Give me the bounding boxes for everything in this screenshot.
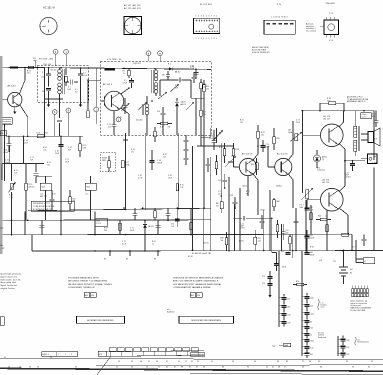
wire x61 drop2 bbox=[60, 220, 62, 234]
svg-text:R 31: R 31 bbox=[131, 149, 135, 151]
wire x95 drop bbox=[94, 212, 96, 235]
boxed net label 3x8C bbox=[276, 185, 282, 187]
wire x23 down bbox=[23, 136, 25, 163]
resistor R39 bbox=[221, 232, 228, 250]
svg-text:(C57): (C57) bbox=[239, 241, 244, 243]
trimmer module B1 bbox=[158, 92, 167, 99]
wire below box7213 bbox=[46, 211, 91, 221]
variable resistor volume bbox=[225, 156, 236, 167]
svg-text:180: 180 bbox=[287, 306, 290, 308]
svg-text:88: 88 bbox=[181, 366, 183, 368]
svg-text:120uF: 120uF bbox=[157, 163, 162, 165]
connector right battery bbox=[356, 258, 375, 264]
wire x143 vertical bbox=[145, 133, 147, 210]
boxed label 3x42 bbox=[203, 243, 209, 245]
svg-text:56: 56 bbox=[146, 366, 148, 368]
wire bus y136 bbox=[6, 136, 83, 138]
svg-text:98: 98 bbox=[309, 361, 311, 363]
wire x296 drop bbox=[295, 208, 297, 251]
capacitor C42 center bbox=[150, 150, 162, 170]
svg-text:47k: 47k bbox=[327, 100, 330, 102]
junction dots bus220 bbox=[11, 220, 169, 222]
boxed MW FM english bbox=[84, 293, 96, 297]
svg-text:R 70: R 70 bbox=[180, 185, 184, 187]
svg-text:4: 4 bbox=[203, 38, 204, 40]
wire module A drop x66 bbox=[65, 68, 68, 86]
svg-text:10uF: 10uF bbox=[310, 210, 314, 212]
svg-text:1: 1 bbox=[216, 38, 217, 40]
svg-text:R 37: R 37 bbox=[246, 191, 250, 193]
svg-text:LES VALEURS SONT VALABLES: LES VALEURS SONT VALABLES SANS SIGNAL bbox=[173, 283, 222, 286]
capacitor C13 below T2 bbox=[107, 111, 116, 132]
svg-text:R 23: R 23 bbox=[47, 162, 51, 164]
svg-text:41: 41 bbox=[166, 361, 168, 363]
wire bus y163 bbox=[0, 163, 44, 165]
label AC117 pinout bbox=[124, 4, 141, 10]
svg-text:C14: C14 bbox=[218, 180, 221, 182]
wire x177 vertical bbox=[177, 133, 179, 209]
IF/osc module F IV 7306-50 label bbox=[107, 59, 122, 61]
svg-text:96: 96 bbox=[302, 366, 304, 368]
svg-text:MODIFICATIONS RESERVEES: MODIFICATIONS RESERVEES bbox=[191, 319, 221, 322]
svg-text:AF 126 I: AF 126 I bbox=[8, 85, 17, 88]
junction E26 box bbox=[95, 218, 107, 227]
capacitor C44 series bbox=[234, 216, 273, 230]
svg-text:330: 330 bbox=[104, 230, 107, 232]
boxed label 3x7C bbox=[282, 267, 287, 269]
wire T3 collector bbox=[253, 140, 259, 160]
svg-text:39k: 39k bbox=[246, 193, 249, 195]
choke on bus left bbox=[10, 66, 18, 68]
electrolytic column D bbox=[303, 336, 315, 358]
svg-text:50uF: 50uF bbox=[266, 147, 270, 149]
trimmer arrow module B1 bbox=[170, 84, 179, 92]
thin rule 1 bbox=[0, 358, 383, 361]
svg-text:C60: C60 bbox=[310, 252, 313, 254]
wire T6 collector bbox=[339, 161, 345, 192]
svg-text:R 63: R 63 bbox=[104, 228, 108, 230]
boxed net label 3x1 bbox=[243, 185, 248, 187]
labels near battery bbox=[310, 247, 355, 264]
svg-text:4n5: 4n5 bbox=[310, 305, 313, 307]
svg-text:C 42: C 42 bbox=[157, 160, 161, 162]
resistor x311b bbox=[310, 213, 313, 220]
svg-text:44: 44 bbox=[266, 366, 268, 368]
svg-text:6: 6 bbox=[208, 15, 209, 17]
resistor R11 module B bbox=[157, 122, 172, 128]
wire module A x44 stub bbox=[44, 68, 46, 99]
electrolytic column B bbox=[303, 293, 315, 326]
svg-text:R 05: R 05 bbox=[37, 133, 41, 135]
svg-text:C 4: C 4 bbox=[83, 73, 86, 75]
svg-text:1: 1 bbox=[65, 354, 66, 356]
wire output left rail bbox=[302, 110, 304, 193]
svg-text:(1): (1) bbox=[322, 159, 325, 161]
svg-text:52: 52 bbox=[310, 334, 312, 336]
capacitor C15 with trimmer bbox=[118, 98, 130, 119]
svg-text:4: 4 bbox=[203, 15, 204, 17]
svg-text:45: 45 bbox=[272, 366, 274, 368]
speaker LS bbox=[368, 128, 380, 146]
circled 8 below A bbox=[66, 108, 71, 136]
IF transformer module FII 7213-380 label bbox=[39, 58, 54, 60]
svg-text:ALTERATIONS RESERVED: ALTERATIONS RESERVED bbox=[87, 319, 114, 322]
diode AD thermistor bbox=[313, 150, 327, 168]
svg-text:C 5: C 5 bbox=[124, 80, 127, 82]
svg-text:2: 2 bbox=[198, 38, 199, 40]
svg-text:CONDENSER TURNED IN: CONDENSER TURNED IN bbox=[68, 287, 95, 289]
capacitor C3 in module A bbox=[78, 68, 87, 83]
boxed label 3x0C bbox=[261, 210, 266, 212]
wire module B bottoms bbox=[114, 69, 204, 135]
svg-text:4.7uF: 4.7uF bbox=[123, 83, 127, 85]
module box trafo right bbox=[85, 183, 96, 190]
junction dots bus208 bbox=[123, 207, 236, 209]
svg-text:C91: C91 bbox=[346, 347, 349, 349]
small box left edge bbox=[0, 317, 4, 326]
svg-text:R 28: R 28 bbox=[236, 149, 240, 151]
svg-text:2: 2 bbox=[71, 354, 72, 356]
wire x320 vertical bbox=[319, 103, 321, 111]
svg-text:R 19: R 19 bbox=[83, 145, 87, 147]
text block english bbox=[68, 277, 112, 290]
left margin box2 bbox=[1, 131, 7, 136]
svg-text:R68: R68 bbox=[277, 201, 280, 203]
trimmer arrow center bbox=[214, 130, 223, 140]
svg-text:3: 3 bbox=[201, 15, 202, 17]
component on stub x158 bbox=[156, 226, 161, 228]
svg-text:C 17: C 17 bbox=[30, 157, 34, 159]
svg-text:75k: 75k bbox=[168, 127, 171, 129]
svg-text:F IV 7306 - 50: F IV 7306 - 50 bbox=[107, 59, 122, 61]
svg-text:50: 50 bbox=[232, 361, 234, 363]
svg-text:C 64: C 64 bbox=[191, 66, 195, 68]
stub rail x110 bbox=[109, 250, 111, 256]
note adjusted text bbox=[347, 96, 368, 104]
svg-text:GROUNDED on PCC: GROUNDED on PCC bbox=[33, 203, 51, 205]
capacitor column below rail bbox=[262, 271, 272, 290]
connector block F IV bbox=[264, 17, 295, 35]
svg-text:6k8: 6k8 bbox=[73, 201, 76, 203]
label F IV bbox=[277, 4, 282, 6]
svg-text:FI, FII, FIII,: FI, FII, FIII, bbox=[200, 4, 213, 6]
svg-text:67: 67 bbox=[196, 366, 198, 368]
wire x270 below bbox=[268, 290, 271, 298]
resistor R16 module B bbox=[203, 80, 210, 98]
wire output top rail bbox=[301, 110, 374, 112]
thin rule 2 right bbox=[96, 364, 383, 367]
svg-text:E1: M: E1: M bbox=[188, 256, 193, 258]
svg-text:C 40: C 40 bbox=[55, 151, 59, 153]
svg-text:R10: R10 bbox=[251, 164, 254, 166]
label below rail left bbox=[104, 259, 156, 261]
tiny label field 1 bbox=[44, 196, 47, 198]
wire battery top bbox=[343, 250, 345, 259]
svg-text:16.05%: 16.05% bbox=[345, 177, 351, 179]
wire T6 emitter bbox=[339, 208, 348, 235]
svg-text:46: 46 bbox=[140, 361, 142, 363]
wire x263 drop bbox=[263, 210, 265, 250]
transistor T6 AC117 lower bbox=[321, 179, 344, 212]
small dashed box label bbox=[101, 153, 116, 172]
capacitor C4 vertical plates bbox=[66, 80, 79, 91]
svg-text:R 2: R 2 bbox=[168, 64, 171, 66]
svg-text:R 13: R 13 bbox=[9, 195, 13, 197]
svg-text:E3: E3 bbox=[126, 259, 128, 261]
svg-text:R 06: R 06 bbox=[43, 147, 47, 149]
svg-text:R 15: R 15 bbox=[29, 184, 33, 186]
wire T5 emitter bbox=[339, 143, 345, 160]
wire bus y211 bbox=[28, 210, 100, 211]
svg-text:Typ: Typ bbox=[272, 346, 275, 348]
svg-text:C 21: C 21 bbox=[65, 159, 69, 161]
resistor x155 below bus bbox=[154, 208, 157, 220]
svg-text:AC 117 / AC 176: AC 117 / AC 176 bbox=[124, 4, 141, 7]
svg-text:(3x8C): (3x8C) bbox=[276, 185, 282, 187]
svg-text:250u: 250u bbox=[310, 297, 314, 299]
svg-text:C92: C92 bbox=[346, 354, 349, 356]
wire T3 emitter bbox=[253, 174, 258, 200]
transistor T5 AC117 upper bbox=[321, 115, 344, 147]
trimmer arrow module B2 bbox=[138, 102, 147, 110]
resistor R68 bbox=[273, 198, 280, 211]
svg-text:C14: C14 bbox=[157, 111, 160, 113]
svg-text:C 10: C 10 bbox=[345, 173, 349, 175]
svg-text:S 2: S 2 bbox=[352, 247, 355, 249]
wire module A drop x44 bbox=[44, 99, 46, 137]
wire T5-T6 join bbox=[344, 160, 346, 162]
svg-text:FTP: FTP bbox=[99, 354, 102, 356]
wire T4 base bbox=[268, 146, 275, 167]
wire T2 emitter bbox=[121, 108, 129, 131]
svg-text:NTC: NTC bbox=[317, 168, 320, 170]
svg-text:AC 151 VII: AC 151 VII bbox=[277, 153, 288, 156]
svg-text:R 42: R 42 bbox=[261, 132, 265, 134]
label 41 above rule bbox=[4, 357, 52, 359]
svg-text:68: 68 bbox=[203, 366, 205, 368]
resistor x216 mid bbox=[215, 155, 218, 175]
box modifications reservees bbox=[179, 316, 234, 323]
svg-text:8nF: 8nF bbox=[68, 149, 71, 151]
svg-text:Chass: Chass bbox=[362, 114, 367, 116]
resistor R40 fuse bbox=[324, 98, 340, 104]
note text bottom view bbox=[252, 46, 270, 54]
svg-text:TENSIONS DE SERVICE MESUREE: TENSIONS DE SERVICE MESUREES A CHASSIS bbox=[173, 277, 224, 280]
rule numbers row 2 bbox=[8, 366, 370, 368]
svg-text:R 1: R 1 bbox=[75, 89, 78, 91]
resistor R81 bbox=[216, 200, 223, 213]
svg-text:F.22: F.22 bbox=[33, 58, 36, 60]
svg-text:C45: C45 bbox=[287, 314, 290, 316]
svg-text:56k: 56k bbox=[221, 240, 224, 242]
svg-text:AC 152 VII: AC 152 VII bbox=[242, 153, 253, 156]
capacitor C58b bbox=[281, 251, 290, 254]
transistor T1 AF126 bbox=[8, 85, 23, 107]
svg-text:10uF: 10uF bbox=[168, 177, 172, 179]
svg-text:47k: 47k bbox=[131, 151, 134, 153]
svg-text:B1: B1 bbox=[350, 273, 352, 275]
svg-text:82: 82 bbox=[189, 366, 191, 368]
label TBA pinout bbox=[325, 3, 335, 5]
svg-text:gnd: gnd bbox=[1, 228, 4, 230]
IF transformer B winding 1 bbox=[154, 69, 158, 81]
svg-text:C 1: C 1 bbox=[68, 87, 71, 89]
svg-text:C58: C58 bbox=[230, 195, 233, 197]
svg-text:51: 51 bbox=[116, 366, 118, 368]
svg-text:5: 5 bbox=[206, 15, 207, 17]
transistor T2 AF125 bbox=[103, 83, 124, 111]
note box grounded bbox=[31, 201, 74, 211]
svg-text:R 26: R 26 bbox=[219, 147, 223, 149]
wire x191 drop bbox=[190, 208, 192, 235]
IF transformer B winding 2 bbox=[154, 83, 158, 97]
svg-text:TDh-800: TDh-800 bbox=[325, 3, 335, 5]
svg-text:R76: R76 bbox=[203, 84, 206, 86]
wire x203 drop bbox=[203, 208, 205, 250]
small cap C1b bbox=[162, 71, 170, 80]
svg-text:R 40: R 40 bbox=[327, 98, 331, 100]
svg-text:1: 1 bbox=[48, 31, 49, 33]
svg-text:C43: C43 bbox=[44, 196, 47, 198]
svg-text:E2: E2 bbox=[104, 259, 106, 261]
resistor R60 bbox=[289, 235, 292, 251]
IF transformer B core bbox=[152, 70, 153, 93]
label connector FI FII bbox=[200, 4, 213, 6]
text block german left bbox=[1, 274, 22, 291]
svg-text:AVEC VOLTMETRE A LAMPE UNI: AVEC VOLTMETRE A LAMPE UNIVERSELLE bbox=[173, 280, 219, 283]
svg-text:0.1uF: 0.1uF bbox=[122, 243, 126, 245]
svg-text:(3x1): (3x1) bbox=[243, 185, 248, 187]
resistor R28 bbox=[232, 143, 239, 163]
svg-text:0.1uF: 0.1uF bbox=[4, 152, 9, 154]
svg-text:C 43: C 43 bbox=[5, 160, 9, 162]
svg-text:C 41: C 41 bbox=[4, 150, 8, 152]
wires bus220 to234 stubs bbox=[42, 220, 158, 235]
svg-text:1 2 3 4 5 6 7 8 9 10: 1 2 3 4 5 6 7 8 9 10 bbox=[271, 17, 287, 19]
wire x271 drop bbox=[272, 218, 277, 252]
boxed net label Cx60 bbox=[231, 155, 233, 158]
svg-text:8: 8 bbox=[214, 38, 215, 40]
transistor pinout bottom-view AC151 bbox=[40, 17, 57, 34]
svg-text:P 4.7: P 4.7 bbox=[300, 205, 304, 207]
capacitor x364 low bbox=[362, 235, 367, 246]
capacitor C12 center bbox=[123, 139, 128, 141]
svg-text:2.2k: 2.2k bbox=[14, 172, 17, 174]
svg-text:C 44: C 44 bbox=[68, 147, 72, 149]
tiny label field 2 bbox=[73, 199, 76, 203]
boxed typ label bbox=[272, 343, 291, 347]
svg-text:64.5: 64.5 bbox=[27, 73, 30, 75]
svg-text:ZA 311: ZA 311 bbox=[148, 225, 154, 228]
component on stub x120 bbox=[119, 223, 122, 230]
stub rail x158 bbox=[157, 250, 159, 256]
svg-text:trou central: trou central bbox=[306, 29, 316, 32]
svg-text:53: 53 bbox=[197, 361, 199, 363]
wire x192 drop bbox=[192, 146, 194, 251]
resistor R15 bbox=[25, 164, 35, 221]
transistor pinout square AC117 bbox=[124, 17, 142, 35]
capacitor C1 in module A bbox=[41, 68, 51, 87]
parts strip right boxes bbox=[191, 352, 205, 356]
svg-text:92k: 92k bbox=[45, 133, 48, 135]
svg-text:R 6: R 6 bbox=[286, 230, 289, 232]
transistor T4 AC151 bbox=[275, 153, 292, 176]
connector block FI/FII/FIII bbox=[194, 15, 220, 40]
component on stub x42 bbox=[40, 226, 45, 228]
svg-text:F IV: F IV bbox=[277, 4, 282, 6]
svg-text:C47: C47 bbox=[287, 322, 290, 324]
brace ext bestell bbox=[355, 337, 370, 345]
svg-text:56nF: 56nF bbox=[240, 226, 244, 228]
wire cap bank drop bbox=[279, 251, 338, 356]
svg-text:1k: 1k bbox=[152, 243, 154, 245]
svg-text:R14: R14 bbox=[296, 281, 299, 283]
circled terminal 4 bbox=[53, 49, 58, 66]
resistor R03 on bus bbox=[27, 58, 36, 75]
svg-text:1261-108: 1261-108 bbox=[43, 64, 51, 66]
svg-text:8: 8 bbox=[214, 15, 215, 17]
resistor R14 low bbox=[293, 281, 307, 286]
svg-text:53: 53 bbox=[131, 366, 133, 368]
svg-text:93: 93 bbox=[310, 321, 312, 323]
wire top bus bbox=[2, 67, 211, 70]
capacitor x52 mid left bbox=[50, 190, 55, 211]
label 1261-108 bbox=[43, 64, 51, 66]
svg-text:x2: x2 bbox=[364, 261, 366, 263]
wire module A bottom bbox=[45, 98, 64, 100]
capacitor x36 left bbox=[34, 174, 39, 183]
svg-text:47: 47 bbox=[284, 366, 286, 368]
svg-text:561-108: 561-108 bbox=[51, 70, 57, 72]
ground module A right bbox=[79, 83, 82, 107]
volume potentiometer bbox=[300, 188, 314, 209]
diode D1 module B bbox=[164, 64, 180, 74]
resistor x70 mid left bbox=[69, 190, 72, 211]
svg-text:R47: R47 bbox=[258, 238, 261, 240]
svg-text:7.2k: 7.2k bbox=[180, 187, 183, 189]
svg-text:40: 40 bbox=[156, 361, 158, 363]
wire left col x4.5 lower bbox=[4, 124, 6, 181]
left margin label bbox=[1, 228, 4, 230]
wire x270 drop bbox=[269, 190, 271, 251]
svg-text:C 48: C 48 bbox=[138, 175, 142, 177]
capacitor C10 out bbox=[345, 161, 355, 179]
svg-text:R 41: R 41 bbox=[240, 120, 244, 122]
capacitor R6bank bbox=[281, 224, 289, 240]
svg-text:94: 94 bbox=[247, 366, 249, 368]
svg-text:C75: C75 bbox=[262, 276, 265, 278]
svg-text:VALUES VALID WITHOUT SIGNAL: VALUES VALID WITHOUT SIGNAL TUNING bbox=[68, 283, 112, 286]
svg-text:C.13: C.13 bbox=[107, 124, 111, 126]
svg-text:220: 220 bbox=[261, 135, 264, 137]
boxed x2 label bbox=[319, 260, 323, 262]
capacitor C40 electrolytic bbox=[55, 136, 63, 220]
wire x210 drop bbox=[209, 157, 211, 250]
svg-text:15k: 15k bbox=[206, 89, 209, 91]
wire x124 vertical bbox=[125, 133, 127, 210]
svg-text:500uF: 500uF bbox=[310, 238, 315, 240]
svg-text:15nF: 15nF bbox=[5, 162, 9, 164]
svg-text:124: 124 bbox=[258, 241, 261, 243]
diode D2 module B bbox=[175, 98, 186, 112]
wire speaker leads bbox=[361, 134, 368, 140]
wire T1 base bbox=[3, 99, 8, 101]
svg-text:C58: C58 bbox=[281, 251, 284, 253]
driver transformer core bbox=[358, 126, 359, 151]
svg-text:(3x0): (3x0) bbox=[261, 210, 266, 212]
labels right mid extra bbox=[218, 120, 300, 196]
svg-text:45nF: 45nF bbox=[24, 142, 28, 144]
